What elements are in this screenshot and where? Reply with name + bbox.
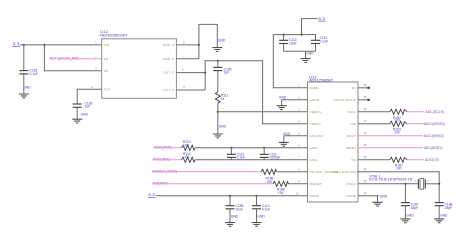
svg-text:100: 100	[394, 130, 400, 134]
svg-text:ADC(CS): ADC(CS)	[425, 158, 439, 162]
capacitor C185	[226, 196, 244, 212]
svg-text:10uF: 10uF	[289, 42, 297, 46]
svg-text:GND: GND	[23, 86, 31, 90]
svg-text:ADS1256IDBT: ADS1256IDBT	[309, 79, 333, 83]
resistor R183	[390, 121, 407, 134]
wire out vertical and vref trace	[205, 61, 307, 124]
wire DVDD rail	[156, 195, 308, 197]
wire C186 upper lead	[217, 61, 219, 68]
junction SS tap	[43, 44, 45, 46]
node 3.3V power label top-left	[12, 42, 20, 46]
capacitor C113	[279, 38, 297, 45]
svg-text:DIN: DIN	[350, 122, 356, 126]
svg-text:GND: GND	[81, 112, 89, 116]
wire OUT_F to vertical	[176, 72, 205, 74]
wire DRDY pink	[358, 144, 423, 148]
ground below R111	[213, 124, 227, 137]
junction C111 top	[263, 147, 265, 149]
node 3.3V power label bottom	[148, 193, 156, 197]
svg-text:REF6225IDGKT: REF6225IDGKT	[100, 34, 128, 38]
capacitor C182	[19, 69, 38, 77]
svg-text:100: 100	[396, 166, 402, 170]
svg-text:DOUT: DOUT	[347, 134, 357, 138]
svg-text:3.3: 3.3	[148, 193, 155, 197]
svg-text:AINCOM: AINCOM	[310, 134, 324, 138]
svg-text:/RESET: /RESET	[310, 182, 322, 186]
resistor R111	[215, 92, 228, 103]
svg-text:100: 100	[394, 119, 400, 123]
svg-text:D0/CLKOUT: D0/CLKOUT	[334, 98, 356, 102]
wire XTAL2 row	[358, 180, 418, 184]
ground DGND	[373, 194, 388, 206]
wire DIN pink	[407, 123, 424, 125]
wire AIN0 pink lead	[154, 147, 182, 149]
svg-text:GND: GND	[440, 214, 448, 218]
wire SYNC pink row	[152, 171, 261, 173]
capacitor C114	[311, 36, 328, 44]
svg-text:0.1uF: 0.1uF	[30, 72, 38, 76]
junction C187 tap	[404, 183, 406, 185]
wire GND_S to vertical	[176, 44, 199, 46]
svg-text:AGND: AGND	[310, 98, 320, 102]
wire AIN1 row	[195, 159, 307, 161]
wire AINCOM	[284, 135, 308, 137]
wire CS gray	[358, 156, 390, 160]
svg-text:1k: 1k	[221, 97, 225, 101]
svg-text:1uF: 1uF	[85, 105, 91, 109]
junction C182 tap	[23, 44, 25, 46]
svg-text:XTAL2: XTAL2	[346, 182, 356, 186]
svg-text:EN: EN	[104, 57, 109, 61]
svg-text:SCLK: SCLK	[348, 110, 357, 114]
svg-text:10uF: 10uF	[235, 207, 243, 211]
svg-text:ECS-76.8-18-5PXEN-TR: ECS-76.8-18-5PXEN-TR	[369, 178, 413, 182]
svg-text:3.3: 3.3	[12, 42, 19, 46]
svg-text:1000pF: 1000pF	[269, 156, 280, 160]
wire avdd bus	[273, 35, 316, 88]
capacitor C110	[252, 196, 270, 212]
wire C182 upper lead	[23, 45, 25, 71]
svg-text:GND: GND	[380, 194, 388, 198]
wire C182 lower lead	[23, 74, 25, 94]
wire gnd bus caps	[284, 50, 316, 52]
svg-text:100: 100	[278, 191, 284, 195]
op-amp U12 REF6225IDGKT body	[100, 30, 176, 98]
wire VIN rail	[20, 44, 102, 46]
svg-text:D1: D1	[352, 86, 356, 90]
wire EN pink	[58, 58, 102, 60]
wire C114 lower lead	[315, 44, 317, 52]
op-amp U13 ADS1256IDBT body	[308, 76, 359, 203]
ground below C185	[225, 209, 239, 227]
ground below C110	[252, 209, 266, 227]
junction xtal right	[438, 183, 440, 185]
wire C113 lower lead	[283, 44, 285, 52]
junction gnd pins	[198, 44, 200, 46]
capacitor C188	[435, 203, 453, 210]
wire C114 upper lead	[315, 35, 317, 41]
svg-text:GND: GND	[279, 96, 287, 100]
svg-text:AIN0: AIN0	[310, 146, 318, 150]
wire SS branch	[44, 45, 101, 71]
ground below caps bus	[301, 51, 315, 62]
svg-text:SS: SS	[104, 69, 109, 73]
svg-text:GND: GND	[406, 214, 414, 218]
svg-text:GND: GND	[306, 52, 314, 56]
svg-text:1uF: 1uF	[224, 71, 230, 75]
junction vrefn	[217, 111, 219, 113]
capacitor C186	[213, 67, 231, 74]
svg-text:AIN1: AIN1	[310, 158, 318, 162]
resistor R187	[390, 157, 407, 170]
ground below C183	[72, 112, 88, 123]
svg-text:VIN: VIN	[104, 43, 110, 47]
wire SCLK pink	[407, 111, 424, 113]
svg-text:0.1uF: 0.1uF	[262, 207, 270, 211]
resistor R110	[182, 140, 196, 150]
svg-text:ADC(SCLK): ADC(SCLK)	[425, 110, 444, 114]
svg-text:/DRDY: /DRDY	[346, 146, 357, 150]
wire AIN1 pink lead	[153, 159, 182, 161]
wire AIN0 row	[195, 147, 307, 149]
svg-text:GND: GND	[257, 214, 265, 218]
svg-text:GND_F: GND_F	[163, 57, 174, 61]
wire CLKIN row	[357, 168, 439, 202]
wire AGND	[282, 99, 308, 101]
svg-text:ADC(DRDY): ADC(DRDY)	[424, 146, 443, 150]
junction out_f	[204, 72, 206, 74]
resistor R114	[182, 152, 196, 163]
svg-text:/CS: /CS	[351, 158, 357, 162]
junction C110	[255, 195, 257, 197]
wire DOUT pink	[358, 132, 423, 136]
wire gnd vertical up	[199, 24, 217, 58]
junction C112 top	[230, 147, 232, 149]
svg-text:GND_S: GND_S	[163, 43, 175, 47]
wire RESET pink row	[152, 183, 273, 185]
ground below C187	[400, 206, 414, 223]
wire 3.3 to avdd bus	[302, 19, 318, 35]
svg-text:100: 100	[267, 180, 273, 184]
svg-text:3.3: 3.3	[318, 17, 325, 21]
wire DGND stub	[358, 192, 379, 196]
svg-text:ADC(MOSI): ADC(MOSI)	[424, 122, 445, 126]
resistor R182	[390, 109, 407, 123]
svg-text:301: 301	[184, 143, 190, 147]
ground below C182	[19, 86, 31, 98]
wire R111 to ground	[217, 103, 219, 134]
svg-text:0.1uF: 0.1uF	[237, 156, 245, 160]
wire DIN gray	[358, 120, 390, 124]
resistor R186	[261, 169, 277, 184]
wire SYNC to adc	[277, 171, 308, 173]
wire CS pink	[407, 159, 424, 161]
capacitor C187	[401, 184, 419, 210]
svg-text:OUT_F: OUT_F	[163, 71, 174, 75]
ground below C188	[434, 206, 448, 223]
ground AINCOM	[279, 132, 291, 146]
junction 3.3 drop	[300, 34, 302, 36]
wire C113 upper lead	[283, 35, 285, 41]
pin D1 stub with no-connect	[358, 84, 370, 89]
wire VREFN row	[218, 111, 308, 113]
svg-text:18pF: 18pF	[445, 206, 453, 210]
wire RESET to adc	[289, 183, 308, 185]
svg-text:DVDD: DVDD	[310, 194, 320, 198]
capacitor C183	[73, 101, 93, 108]
svg-text:VREFP: VREFP	[310, 122, 321, 126]
wire C183 lower lead	[76, 107, 78, 119]
svg-text:AVDD: AVDD	[310, 86, 320, 90]
ground AGND	[277, 96, 287, 110]
svg-text:XTAL1/CLKIN: XTAL1/CLKIN	[331, 170, 356, 174]
svg-text:GND: GND	[219, 124, 227, 128]
wire FILT lead	[77, 89, 102, 104]
svg-text:FILT: FILT	[104, 87, 111, 91]
svg-text:GND: GND	[283, 132, 291, 136]
svg-text:DGND: DGND	[347, 194, 357, 198]
svg-text:GND: GND	[218, 39, 226, 43]
svg-text:VREFN: VREFN	[310, 110, 321, 114]
svg-text:0.1uF: 0.1uF	[320, 39, 328, 43]
wire SCLK gray	[358, 108, 390, 112]
svg-text:GND: GND	[231, 214, 239, 218]
svg-text:18pF: 18pF	[411, 206, 419, 210]
junction C185	[229, 195, 231, 197]
junction filter tap	[217, 60, 219, 62]
capacitor C112	[227, 148, 245, 160]
wire C186 to R111	[217, 71, 219, 92]
node 3.3V power label top-right	[318, 17, 325, 21]
svg-text:301: 301	[184, 155, 190, 159]
crystal XTAL1	[369, 174, 439, 189]
svg-text:OUT_S: OUT_S	[163, 88, 174, 92]
pin D0 stub with no-connect	[358, 96, 370, 101]
capacitor C111	[260, 148, 281, 160]
wire GND_F to vertical	[176, 58, 199, 60]
ground top-middle	[212, 39, 226, 52]
svg-text:ADC(MISO): ADC(MISO)	[424, 134, 444, 138]
resistor R188	[273, 181, 289, 195]
wire OUT_S to vertical	[176, 89, 205, 91]
junction C113	[283, 34, 285, 36]
